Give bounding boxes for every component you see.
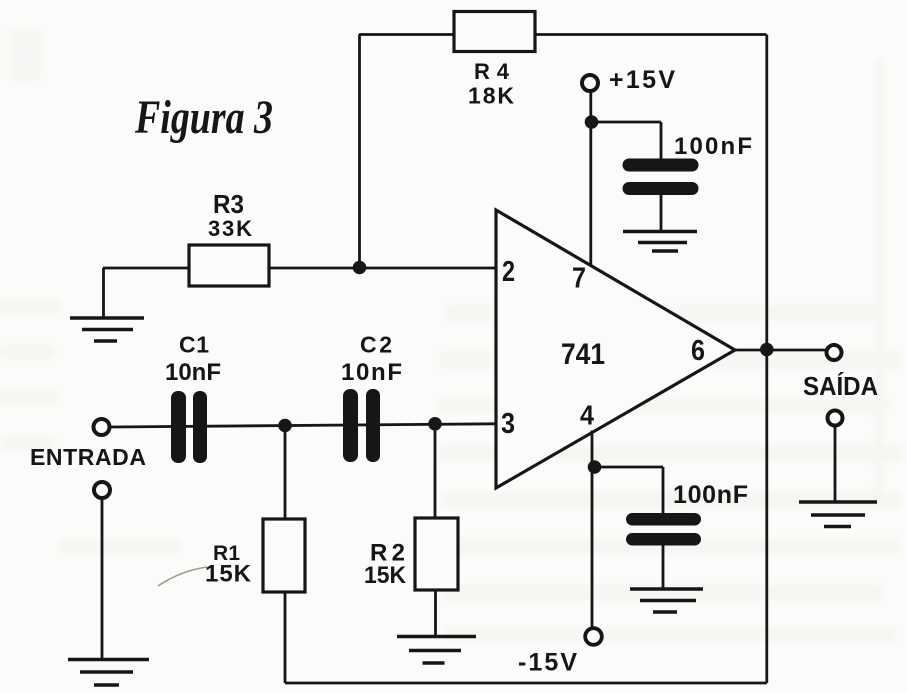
capacitor C2 [341, 332, 402, 463]
resistor R3 [189, 189, 269, 286]
svg-text:C2: C2 [360, 332, 392, 358]
wire SAIDA ground drop [834, 426, 837, 503]
ground at R3 [70, 318, 144, 341]
wire left feedback vertical [358, 35, 361, 268]
terminal SAIDA ground [828, 411, 843, 426]
svg-text:15K: 15K [205, 561, 252, 588]
svg-text:741: 741 [561, 338, 605, 371]
node junction output [760, 343, 774, 357]
capacitor bypass 100nF bottom [626, 481, 748, 546]
wire ENTRADA ground drop [101, 498, 104, 659]
svg-text:3: 3 [501, 408, 515, 440]
wire -15V to C bypass [595, 467, 664, 514]
svg-text:R3: R3 [213, 189, 244, 219]
op-amp U1 741 [496, 210, 735, 488]
node junction +15V [585, 115, 599, 129]
terminal ENTRADA ground [94, 482, 110, 498]
wire R2 ground drop [434, 590, 437, 637]
svg-text:100nF: 100nF [673, 481, 748, 509]
wire pin7 supply vertical [589, 91, 592, 266]
node junction -15V [588, 460, 602, 474]
wire input row [109, 424, 496, 427]
svg-text:4: 4 [580, 400, 594, 431]
wire bypass bottom cap to ground [662, 546, 665, 590]
wire R3 row [103, 267, 496, 270]
wire R3 ground drop [102, 268, 105, 318]
wire pin4 supply vertical [591, 431, 594, 629]
wire top feedback horizontal [359, 33, 767, 36]
capacitor bypass 100nF top [623, 133, 753, 195]
node junction R3-R4 [353, 261, 367, 275]
resistor R4 [454, 12, 535, 109]
svg-text:2: 2 [502, 256, 515, 288]
ground at top bypass [623, 232, 697, 252]
wire R2 drop upper [434, 424, 437, 518]
terminal SAIDA [827, 345, 842, 360]
wire output [735, 349, 827, 352]
svg-text:15K: 15K [364, 562, 407, 589]
ground at SAIDA [799, 502, 877, 527]
resistor R2 [364, 518, 458, 590]
svg-text:33K: 33K [208, 216, 252, 241]
node junction C1-C2 [278, 419, 292, 433]
svg-text:18K: 18K [468, 83, 514, 109]
node junction C2-R2 [428, 417, 442, 431]
svg-text:6: 6 [691, 335, 705, 367]
svg-text:ENTRADA: ENTRADA [30, 444, 146, 470]
wire right feedback vertical [765, 35, 768, 684]
ground at R2 [397, 637, 476, 664]
resistor R1 [158, 519, 305, 592]
terminal ENTRADA [94, 419, 110, 435]
svg-text:10nF: 10nF [341, 359, 402, 386]
wire bottom horizontal [285, 682, 767, 685]
wire R1 drop lower [284, 592, 287, 683]
svg-text:SAÍDA: SAÍDA [803, 371, 878, 401]
ground at ENTRADA [68, 660, 149, 686]
svg-text:C1: C1 [179, 332, 209, 358]
svg-text:10nF: 10nF [165, 359, 221, 386]
capacitor C1 [165, 332, 221, 464]
svg-text:+15V: +15V [609, 66, 675, 94]
svg-text:100nF: 100nF [674, 133, 752, 160]
terminal -15V [585, 628, 602, 645]
svg-text:7: 7 [572, 263, 586, 295]
svg-text:Figura 3: Figura 3 [134, 91, 273, 144]
ground at bottom bypass [630, 589, 703, 612]
wire bypass top cap to ground [660, 195, 663, 230]
wire R1 drop upper [284, 426, 287, 520]
terminal +15V [582, 75, 598, 91]
wire +15V to C bypass [592, 122, 662, 159]
